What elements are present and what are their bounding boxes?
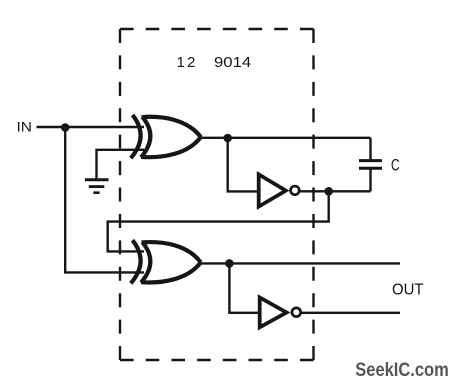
IC boundary dashed box U1 <box>120 29 314 360</box>
ground <box>85 180 109 193</box>
node junction XOR1 output <box>223 134 232 143</box>
inverter U1d <box>260 298 287 328</box>
wire feedback to XOR2 upper input <box>108 191 329 251</box>
svg-text:2: 2 <box>187 54 195 71</box>
svg-text:OUT: OUT <box>392 281 424 298</box>
node junction XOR2 output <box>225 259 234 268</box>
wire junction down to inverter U1d input <box>229 263 259 312</box>
svg-text:SeekIC.com: SeekIC.com <box>355 360 449 381</box>
inverter U1b <box>259 174 286 206</box>
bubble U1d <box>292 308 301 317</box>
wire IN branch to XOR2 lower input <box>64 271 144 273</box>
wire U1b output to capacitor bottom <box>300 190 371 192</box>
svg-text:9014: 9014 <box>214 54 251 71</box>
XOR gate U1c <box>131 240 201 283</box>
wire ground to XOR1 lower input <box>97 150 145 180</box>
XOR gate U1a <box>131 115 201 158</box>
svg-text:1: 1 <box>177 54 185 71</box>
capacitor C <box>359 138 382 192</box>
svg-text:C: C <box>391 155 400 174</box>
wire junction down to inverter U1b input <box>228 138 258 191</box>
wire IN branch vertical <box>64 127 66 272</box>
wire XOR2 output to OUT <box>200 262 400 264</box>
wire IN input <box>37 126 145 128</box>
node junction on IN wire <box>61 123 70 132</box>
wire U1d output <box>301 312 400 314</box>
wire XOR1 output <box>200 137 371 139</box>
svg-text:IN: IN <box>17 118 33 134</box>
bubble U1b <box>291 186 300 195</box>
node junction U1b output <box>324 187 333 196</box>
